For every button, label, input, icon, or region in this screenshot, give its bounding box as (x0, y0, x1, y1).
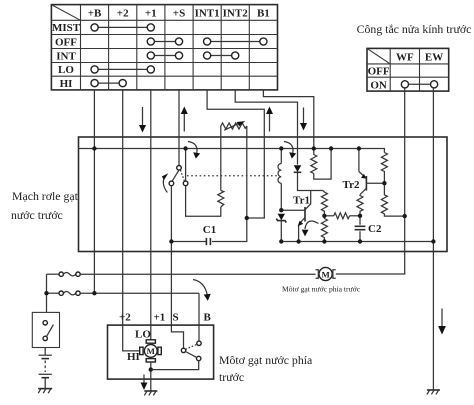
wire INT1 jog right and down to timer node (207, 90, 264, 218)
curved arrow at Tr1 emitter (302, 221, 319, 236)
NC contact wire from bus dot down to contact and resistor U (185, 149, 187, 182)
svg-text:+1: +1 (145, 7, 157, 19)
resistor right chain lower (381, 183, 404, 216)
svg-text:INT: INT (56, 50, 76, 62)
flow arrow up at +S (181, 107, 188, 132)
svg-text:B1: B1 (257, 7, 270, 19)
svg-text:+2: +2 (117, 7, 129, 19)
wiper combination switch table (51, 5, 277, 90)
resistor from B1 bus dot (311, 149, 331, 180)
curved arrow at relay arm (162, 173, 169, 192)
wiper motor box (108, 325, 214, 379)
resistor R between nodes to C2 (324, 213, 360, 219)
svg-text:INT2: INT2 (223, 7, 249, 19)
zener diode (276, 214, 286, 242)
washer switch table (367, 48, 449, 91)
park switch in motor box (181, 341, 201, 361)
svg-text:S: S (173, 312, 179, 324)
svg-text:Tr2: Tr2 (343, 179, 360, 191)
svg-text:Môtơ gạt nước phía: Môtơ gạt nước phía (219, 353, 313, 367)
wire S line down through C1 junction to motor box (171, 186, 183, 348)
junction dots on bus (92, 146, 96, 150)
svg-text:+S: +S (173, 7, 185, 19)
curved arrow at motor B feed (193, 280, 211, 301)
wire C1 node down and left through C1 to S line (212, 218, 247, 242)
svg-text:LO: LO (58, 64, 74, 76)
OFF row contacts +1 to +S (154, 41, 175, 43)
svg-text:INT1: INT1 (195, 7, 220, 19)
svg-text:trước: trước (219, 370, 244, 384)
wire +B column down to fuse junction (93, 90, 95, 293)
ignition switch box (32, 312, 59, 347)
svg-text:MIST: MIST (52, 22, 81, 34)
variable resistor (timer) horizontal (221, 121, 247, 218)
motor ground symbol (144, 391, 157, 395)
fuse 2 (47, 291, 200, 295)
mechanical dashed link from contact to relay coil (187, 175, 278, 177)
svg-text:Công tắc nửa kính trước: Công tắc nửa kính trước (357, 22, 472, 36)
svg-text:LO: LO (135, 329, 151, 341)
curved arrow at coil node (284, 142, 296, 159)
svg-text:nước trước: nước trước (11, 208, 63, 222)
flow arrow down at EW ground line (438, 309, 446, 335)
svg-text:M: M (147, 346, 156, 356)
svg-text:OFF: OFF (55, 36, 77, 48)
svg-text:+2: +2 (119, 312, 131, 324)
main bus inside relay box (79, 149, 385, 153)
svg-text:Môtơ gạt nước phía trước: Môtơ gạt nước phía trước (282, 285, 361, 294)
resistor Tr2 collector load (357, 195, 363, 216)
wire +1 column down to motor top brush (150, 90, 152, 340)
flow arrow up at INT1 (266, 107, 273, 132)
flow arrow down at +1 (139, 107, 146, 133)
flow arrow at motor ground (141, 375, 148, 391)
svg-text:B: B (204, 312, 212, 324)
INT row contacts +1 to +S (154, 55, 175, 57)
transistor Tr1 (281, 191, 310, 242)
wire +S column down to relay contact (178, 90, 180, 166)
junction dots bottom wire (279, 239, 283, 243)
wire B1 jog right down to bus (263, 90, 313, 149)
battery ground (38, 389, 52, 394)
HI row contacts +B to +2 (98, 82, 119, 84)
relay box (79, 137, 448, 252)
resistor right chain upper (381, 153, 387, 184)
capacitor C2 (355, 216, 382, 242)
svg-text:M: M (321, 269, 330, 279)
svg-text:WF: WF (396, 51, 414, 63)
MIST row contacts +B to +1 (98, 26, 147, 28)
resistor above Tr1 collector (321, 191, 327, 216)
relay contact: common from +S, movable arm (169, 166, 188, 186)
wire fuse feed vertical (46, 274, 48, 312)
fuse 1 (47, 272, 316, 276)
svg-text:EW: EW (425, 51, 443, 63)
capacitor C1 (203, 224, 216, 245)
curved arrow at bus contact node (188, 142, 200, 159)
svg-text:ON: ON (370, 79, 387, 91)
wire +2 column down into motor box (123, 90, 142, 351)
ground symbol at EW line (427, 390, 440, 394)
wiper motor (127, 329, 161, 364)
wire EW column down to ground (432, 88, 434, 390)
junction dots mid nodes (245, 216, 249, 220)
motor ground wire (149, 361, 199, 391)
svg-text:+B: +B (88, 7, 102, 19)
OFF row contacts INT1 to B1 (211, 41, 260, 43)
transistor Tr2 (343, 149, 385, 195)
wire INT2 jog right down to diode (235, 90, 297, 165)
battery (39, 348, 52, 389)
relay coil (278, 149, 281, 211)
INT row contacts INT1 to INT2 (211, 55, 232, 57)
svg-text:HI: HI (127, 351, 140, 363)
svg-text:Tr1: Tr1 (293, 195, 310, 207)
wire motor B terminal (198, 293, 200, 341)
LO row contacts +B to +1 (98, 68, 147, 70)
ON row contacts WF to EW (409, 83, 431, 85)
svg-text:Mạch rơle gạt: Mạch rơle gạt (12, 189, 79, 203)
svg-text:+1: +1 (154, 312, 166, 324)
resistor below timer node (321, 216, 327, 242)
wire WF column down and left to washer motor (336, 88, 405, 274)
svg-text:C2: C2 (368, 223, 382, 235)
svg-text:C1: C1 (203, 224, 216, 236)
washer motor (316, 267, 336, 280)
svg-text:OFF: OFF (368, 66, 390, 78)
timing resistor vertical (218, 191, 224, 208)
diode (294, 165, 323, 190)
flow arrow down at B1 (300, 108, 307, 131)
inner emitter bottom wire (281, 241, 433, 243)
svg-text:HI: HI (60, 78, 73, 90)
